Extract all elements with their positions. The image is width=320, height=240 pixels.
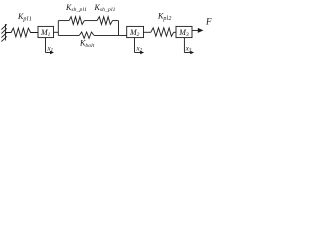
spring K_pl2	[151, 28, 174, 37]
svg-text:M3: M3	[178, 28, 189, 38]
wire top-right	[113, 20, 119, 22]
wall hatch 2	[1, 28, 6, 33]
wall hatch 4	[1, 36, 6, 41]
wall	[4, 24, 6, 41]
x2 arrow shaft	[135, 52, 141, 54]
svg-text:Ksh_pl1: Ksh_pl1	[94, 3, 116, 13]
wire M1 to left junction	[54, 31, 59, 33]
spring K_sh_pl1 (second)	[97, 17, 112, 25]
wire bottom branch left	[58, 34, 79, 36]
svg-text:F: F	[205, 17, 212, 27]
spring K_sh_pl1 (first)	[69, 17, 84, 25]
svg-text:x3: x3	[185, 44, 192, 53]
x1 arrow shaft	[46, 52, 51, 54]
mass M2 box	[127, 26, 144, 37]
svg-text:M2: M2	[129, 28, 140, 38]
wire spring to M3	[174, 31, 176, 33]
svg-text:Kbolt: Kbolt	[79, 39, 95, 49]
wire M2 to spring K_pl2	[144, 31, 151, 33]
left junction stub	[57, 21, 59, 36]
wall hatch 3	[1, 32, 6, 37]
force F arrow shaft	[192, 29, 198, 31]
mass M3 box	[176, 26, 192, 37]
wall hatch 1	[1, 24, 6, 29]
wire below M2	[134, 38, 136, 53]
wire bottom branch right to M2	[94, 34, 127, 36]
x3 arrow shaft	[184, 52, 190, 54]
svg-text:M1: M1	[40, 28, 51, 38]
svg-text:Ksh_pl1: Ksh_pl1	[65, 3, 87, 13]
svg-text:x2: x2	[136, 44, 143, 53]
svg-text:Kpl2: Kpl2	[157, 12, 172, 22]
wire below M3	[183, 38, 185, 53]
svg-text:x1: x1	[47, 44, 54, 53]
force F arrowhead	[198, 28, 204, 33]
right junction stub	[118, 21, 120, 36]
x3 arrowhead	[190, 51, 194, 54]
x1 arrowhead	[50, 51, 54, 54]
svg-text:Kpl1: Kpl1	[17, 12, 32, 22]
spring K_bolt	[79, 32, 94, 38]
mass M1 box	[38, 26, 54, 37]
x2 arrowhead	[140, 51, 144, 54]
spring K_pl1	[5, 28, 38, 37]
wire top-left	[58, 20, 69, 22]
wire below M1	[45, 38, 47, 53]
wire between top springs	[84, 20, 97, 22]
